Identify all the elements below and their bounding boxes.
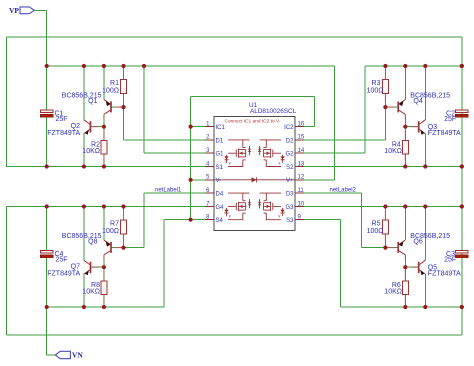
svg-text:netLabel1: netLabel1 [155, 188, 182, 194]
svg-text:14: 14 [298, 148, 305, 154]
svg-text:VP: VP [9, 6, 19, 15]
svg-text:10KΩ: 10KΩ [82, 148, 100, 155]
svg-text:netLabel2: netLabel2 [330, 188, 357, 194]
svg-text:ALD810026SCL: ALD810026SCL [250, 108, 297, 115]
svg-text:Q8: Q8 [88, 239, 97, 246]
svg-text:V-: V- [216, 178, 222, 184]
svg-text:G1: G1 [216, 152, 225, 158]
svg-text:FZT849TA: FZT849TA [428, 271, 461, 278]
svg-text:R1: R1 [110, 80, 119, 87]
svg-text:IC1: IC1 [216, 125, 226, 131]
svg-text:IC2: IC2 [284, 125, 294, 131]
svg-text:10KΩ: 10KΩ [384, 148, 402, 155]
svg-text:100Ω: 100Ω [367, 228, 384, 235]
svg-text:Q4: Q4 [413, 98, 422, 105]
svg-text:V+: V+ [286, 178, 294, 184]
svg-text:100Ω: 100Ω [367, 88, 384, 95]
svg-text:16: 16 [298, 121, 305, 127]
svg-text:FZT849TA: FZT849TA [47, 130, 80, 137]
svg-text:S1: S1 [216, 165, 224, 171]
svg-text:15: 15 [298, 135, 305, 141]
svg-text:R3: R3 [372, 80, 381, 87]
svg-text:10KΩ: 10KΩ [82, 289, 100, 296]
svg-text:S3: S3 [286, 218, 294, 224]
svg-text:G2: G2 [285, 152, 294, 158]
svg-text:Q2: Q2 [71, 123, 80, 130]
svg-text:25F: 25F [444, 257, 456, 264]
svg-text:S2: S2 [286, 165, 294, 171]
svg-text:11: 11 [298, 188, 305, 194]
svg-text:10KΩ: 10KΩ [384, 289, 402, 296]
svg-text:Connect IC1 and IC2 to V-: Connect IC1 and IC2 to V- [225, 118, 281, 124]
svg-text:12: 12 [298, 175, 305, 181]
svg-text:G3: G3 [285, 205, 294, 211]
svg-text:D1: D1 [216, 138, 224, 144]
svg-text:D3: D3 [286, 192, 294, 198]
svg-text:100Ω: 100Ω [102, 228, 119, 235]
svg-text:VN: VN [72, 351, 83, 360]
svg-text:Q1: Q1 [88, 98, 97, 105]
svg-text:Q6: Q6 [413, 239, 422, 246]
svg-text:100Ω: 100Ω [102, 88, 119, 95]
svg-text:R7: R7 [110, 221, 119, 228]
svg-text:D2: D2 [286, 138, 294, 144]
svg-text:FZT849TA: FZT849TA [428, 130, 461, 137]
svg-text:13: 13 [298, 161, 305, 167]
svg-text:D4: D4 [216, 192, 224, 198]
svg-text:25F: 25F [56, 257, 68, 264]
svg-text:10: 10 [298, 201, 305, 207]
svg-text:R5: R5 [372, 221, 381, 228]
svg-text:G4: G4 [216, 205, 225, 211]
svg-text:S4: S4 [216, 218, 224, 224]
svg-text:25F: 25F [56, 116, 68, 123]
svg-text:Q7: Q7 [71, 264, 80, 271]
svg-text:25F: 25F [444, 116, 456, 123]
svg-text:FZT849TA: FZT849TA [47, 271, 80, 278]
